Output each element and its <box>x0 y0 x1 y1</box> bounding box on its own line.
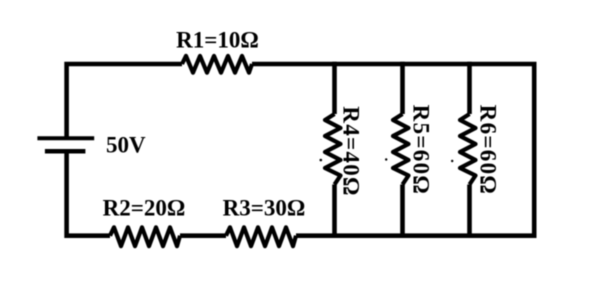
svg-text:R3=30Ω: R3=30Ω <box>223 196 306 221</box>
svg-text:R2=20Ω: R2=20Ω <box>103 196 186 221</box>
svg-text:R5=60Ω: R5=60Ω <box>409 105 434 195</box>
svg-text:50V: 50V <box>106 133 146 158</box>
svg-text:R6=60Ω: R6=60Ω <box>475 105 500 195</box>
svg-text:R1=10Ω: R1=10Ω <box>176 28 259 53</box>
svg-text:R4=40Ω: R4=40Ω <box>339 106 364 196</box>
